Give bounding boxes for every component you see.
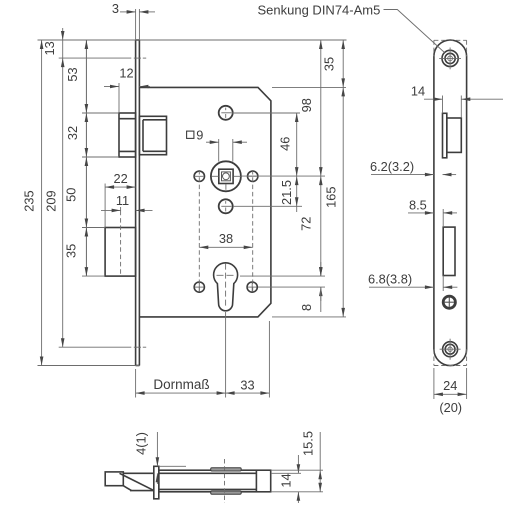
latch nose — [105, 472, 123, 486]
dim 98 / 72 / 8 chain — [299, 40, 321, 312]
svg-text:13: 13 — [42, 41, 57, 55]
svg-text:Senkung DIN74-Am5: Senkung DIN74-Am5 — [258, 2, 381, 17]
svg-text:53: 53 — [65, 67, 80, 81]
dashed hole alignment lines (38) — [199, 170, 252, 294]
euro profile cylinder hole — [214, 263, 238, 311]
svg-text:4(1): 4(1) — [134, 432, 149, 455]
ext lines deadbolt top/bottom — [82, 227, 105, 229]
lower fixing hole — [219, 199, 233, 213]
dim 6.2(3.2) — [370, 159, 456, 175]
dim 11 (deadbolt retracted) — [101, 193, 153, 211]
svg-text:Dornmaß: Dornmaß — [153, 377, 209, 392]
svg-text:14: 14 — [411, 84, 425, 99]
dashed square-end variant bottom — [434, 349, 467, 365]
svg-text:235: 235 — [22, 190, 37, 211]
svg-text:8: 8 — [299, 304, 314, 311]
latch opening with bolt — [443, 113, 462, 158]
svg-text:14: 14 — [278, 473, 293, 487]
ext line plate bottom y=365.5 — [38, 365, 141, 367]
svg-text:6.2(3.2): 6.2(3.2) — [370, 159, 414, 174]
ext lines right: top hole, follower, lower hole, cylinder, screws, body bottom — [232, 112, 300, 114]
follower boss pads — [211, 468, 242, 494]
dim 235 — [22, 40, 42, 366]
dim 6.8(3.8) — [368, 272, 457, 292]
top countersunk screw — [439, 48, 461, 70]
dim 24 / (20) — [434, 368, 467, 415]
svg-text:209: 209 — [44, 190, 59, 211]
lock case (top view) — [159, 470, 271, 492]
svg-text:24: 24 — [443, 378, 457, 393]
chain line 53/32/50/35 — [64, 40, 87, 276]
svg-text:11: 11 — [116, 193, 129, 208]
svg-text:15.5: 15.5 — [301, 431, 316, 456]
ext line top screw level y=58.1 — [59, 57, 132, 59]
svg-text:98: 98 — [299, 98, 314, 112]
Senkung label + leader — [258, 2, 445, 52]
latch bolt tail (behind plate) — [139, 116, 166, 154]
lock case body outline — [139, 87, 271, 317]
faceplate cross-section — [154, 466, 159, 499]
svg-text:35: 35 — [64, 244, 79, 258]
dim 14 (latch bar) — [271, 455, 301, 503]
svg-text:38: 38 — [219, 231, 233, 246]
svg-text:35: 35 — [322, 57, 337, 71]
dim 15.5 (case height) — [271, 431, 323, 492]
svg-text:12: 12 — [119, 66, 133, 81]
dim 8.5 — [408, 198, 457, 228]
ext lines latch top/bottom — [82, 112, 119, 114]
svg-text:6.8(3.8): 6.8(3.8) — [368, 272, 412, 287]
svg-text:50: 50 — [64, 188, 79, 202]
deadbolt head — [105, 228, 136, 277]
svg-text:3: 3 — [112, 1, 119, 16]
cylinder screw holes left/right — [194, 282, 257, 292]
faceplate outline (stadium) — [434, 40, 467, 366]
svg-text:46: 46 — [278, 137, 293, 151]
dim square 9 (follower) — [187, 128, 247, 162]
deadbolt opening — [443, 227, 455, 275]
svg-text:8.5: 8.5 — [409, 198, 427, 213]
follower (square 9 nut) — [211, 161, 241, 191]
svg-text:(20): (20) — [439, 400, 462, 415]
svg-text:33: 33 — [240, 378, 254, 393]
dim 12 (latch protrusion) — [104, 66, 150, 114]
dim Dornmass / 33 — [136, 312, 270, 398]
svg-text:9: 9 — [196, 128, 203, 143]
deadbolt travel dashed line (11) — [120, 211, 122, 276]
dim 14 (latch width) — [411, 84, 503, 119]
dim 46 / 21.5 chain — [278, 113, 297, 212]
latch bolt head (left of plate) — [119, 113, 136, 157]
svg-text:165: 165 — [323, 187, 338, 208]
phillips screw — [443, 296, 455, 308]
dim 3 (plate thickness) — [112, 1, 155, 40]
top fixing hole — [219, 106, 233, 120]
svg-text:22: 22 — [113, 171, 127, 186]
dim 22 (deadbolt thrown) — [105, 171, 136, 228]
svg-text:21.5: 21.5 — [279, 180, 294, 205]
follower axis dashed — [224, 459, 226, 503]
dim 4(1) — [134, 432, 187, 484]
dim 38 (hole spacing) — [199, 231, 252, 247]
latch bevel — [120, 473, 154, 490]
ext line top of plate y=40 — [38, 39, 347, 41]
dim 35 / 165 chain — [322, 40, 344, 317]
dim 209 + 13 — [42, 28, 63, 347]
dashed square-end variant top — [434, 40, 467, 56]
faceplate edge-on (3mm plate) — [136, 40, 140, 366]
svg-text:72: 72 — [299, 217, 314, 231]
follower side holes — [194, 171, 258, 181]
ext line bottom screw level y=347.2 — [59, 346, 132, 348]
bottom countersunk screw — [440, 339, 461, 360]
svg-text:32: 32 — [65, 126, 80, 140]
